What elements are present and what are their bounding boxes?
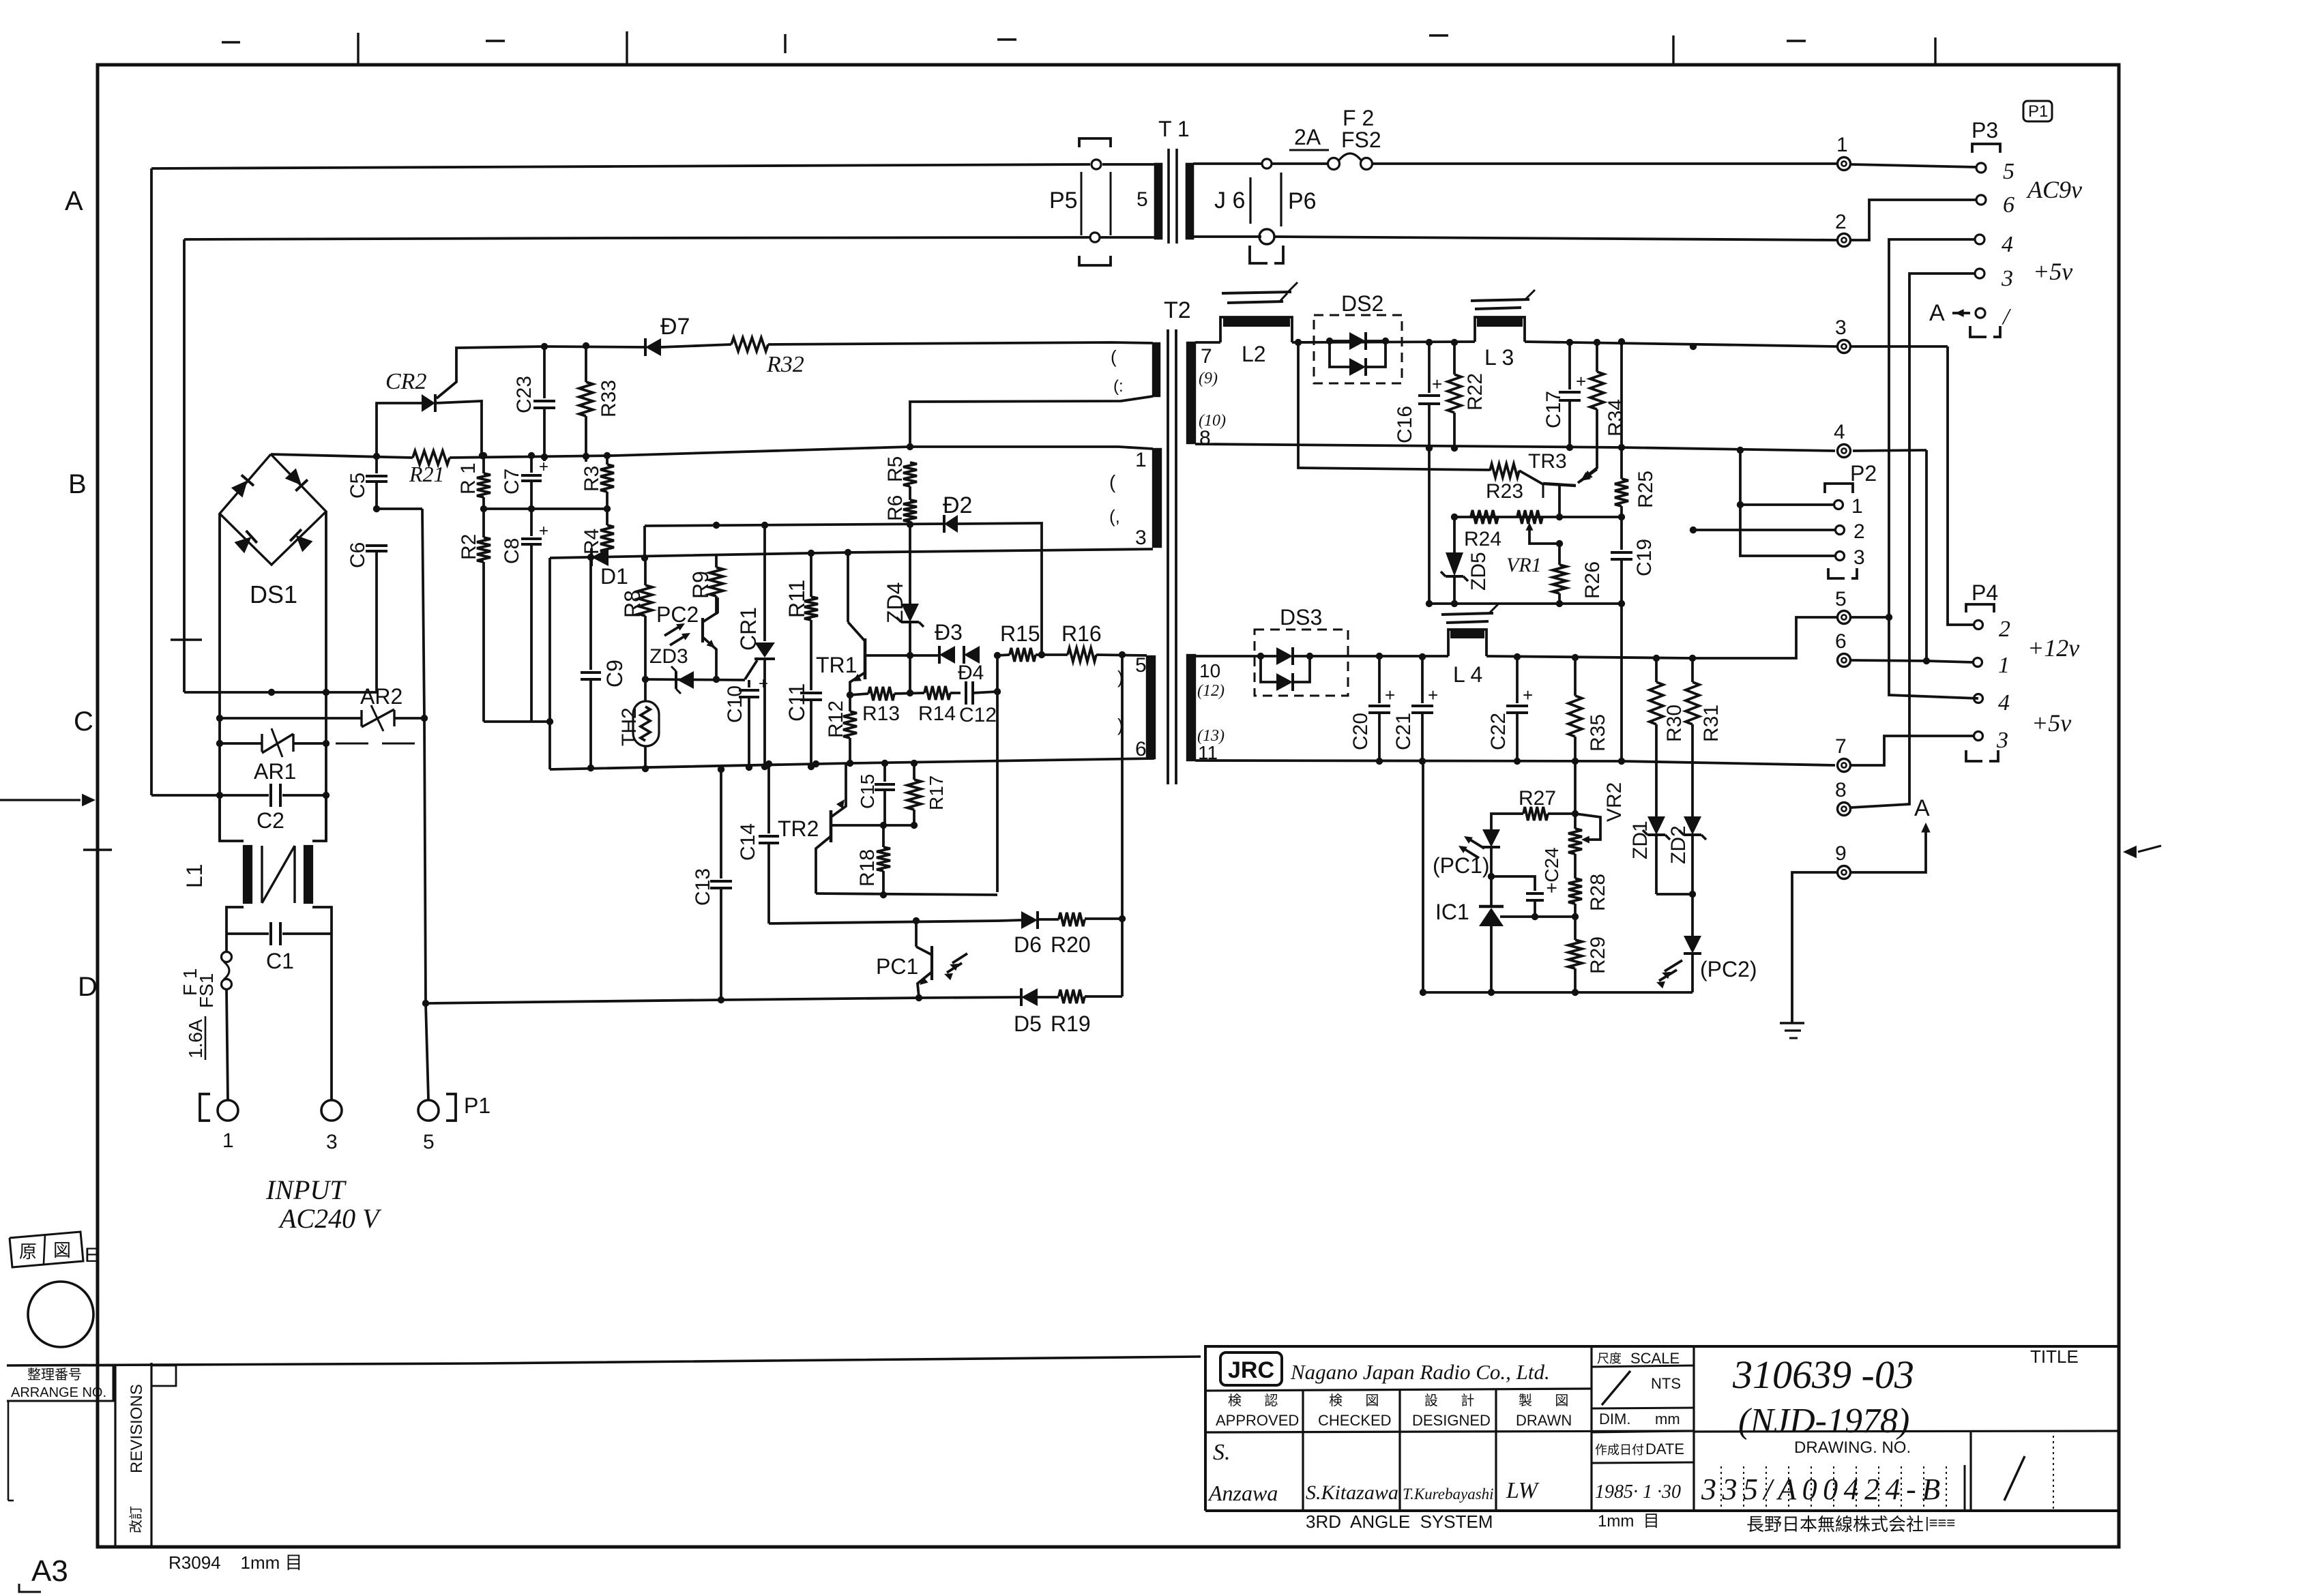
wire R23 feed from wire3	[1298, 342, 1490, 470]
rectifier DS3 dashed box	[1255, 630, 1348, 696]
resistor R28	[1568, 854, 1609, 917]
connector P1 label	[464, 1093, 490, 1118]
junction AR1 left	[216, 740, 223, 747]
svg-text:R35: R35	[1587, 714, 1609, 752]
connector P5 upper contact	[1091, 160, 1101, 169]
svg-text:3: 3	[2001, 266, 2013, 291]
svg-text:DS1: DS1	[250, 580, 297, 608]
capacitor C24 branch	[1491, 847, 1562, 917]
wire D2 to R15/R16 row	[958, 523, 1042, 653]
connector P2 bottom bracket	[1828, 568, 1857, 578]
capacitor C16	[1394, 342, 1442, 447]
snubber wire D7/R32 row	[456, 342, 1153, 368]
winding pin 3 label	[1135, 527, 1147, 549]
zener diode ZD2	[1667, 816, 1706, 894]
svg-text:APPROVED: APPROVED	[1216, 1412, 1299, 1429]
row TR2 base/R18	[832, 822, 918, 829]
connector P6 label	[1288, 188, 1317, 214]
svg-text:R6: R6	[884, 495, 907, 521]
svg-text:1: 1	[1836, 134, 1848, 156]
title block col lines	[1303, 1346, 1592, 1511]
svg-text:図: 図	[53, 1240, 71, 1260]
svg-text:(NJD-1978): (NJD-1978)	[1738, 1402, 1909, 1440]
wire P3.3 vertical to terminal8	[1851, 274, 1976, 808]
svg-text:310639 -03: 310639 -03	[1732, 1353, 1914, 1397]
junction row885 left	[1426, 600, 1433, 607]
node A label	[1914, 795, 1930, 821]
svg-text:+: +	[1523, 685, 1533, 705]
junction wire7 left	[1420, 989, 1426, 996]
bottom right marks	[1925, 1514, 1955, 1531]
resistor R6	[884, 486, 917, 524]
capacitor C5 label	[347, 473, 369, 499]
arrester AR2	[362, 705, 394, 731]
feedthrough terminal 5	[1835, 588, 1851, 624]
svg-text:C2: C2	[257, 808, 284, 833]
svg-text:(PC2): (PC2)	[1700, 957, 1757, 981]
thyristor CR1 label	[736, 607, 761, 651]
winding pin 5 label (T2)	[1117, 654, 1147, 688]
svg-text:(: (	[1109, 471, 1116, 492]
T2 secondary winding bottom (pins 10-11)	[1187, 655, 1195, 760]
rectifier DS2 label	[1341, 291, 1383, 316]
bottom strip 1mm note	[1598, 1512, 1660, 1531]
wire6-to-wire7 left leg	[1422, 761, 1424, 992]
svg-text:C7: C7	[501, 469, 523, 494]
potentiometer VR1	[1506, 510, 1558, 576]
svg-text:+: +	[1432, 374, 1442, 394]
zener diode ZD1	[1629, 816, 1670, 894]
junction AR1 right	[323, 740, 329, 747]
junction row1210 R18	[880, 822, 887, 829]
junction bus C7	[528, 452, 535, 459]
svg-text:1985· 1 ·30: 1985· 1 ·30	[1595, 1481, 1681, 1503]
junction wire4 C17	[1566, 444, 1573, 451]
capacitor C12	[959, 681, 997, 726]
svg-text:改訂: 改訂	[128, 1506, 144, 1533]
wire P2 pin2 feed	[1693, 529, 1835, 531]
svg-text:TR3: TR3	[1528, 450, 1567, 473]
junction wire4 R22	[1451, 445, 1458, 452]
connector P2 label	[1850, 461, 1877, 486]
connector P4 pin 2	[1974, 617, 2011, 642]
svg-text:1: 1	[1998, 653, 2010, 678]
svg-text:R3094 1mm 目: R3094 1mm 目	[168, 1552, 303, 1573]
resistor R8	[620, 558, 652, 679]
rectifier DS2 diodes	[1326, 332, 1389, 376]
svg-text:LW: LW	[1506, 1478, 1540, 1503]
inductor L2 core	[1222, 282, 1298, 303]
svg-text:A: A	[1929, 300, 1945, 326]
shunt regulator IC1	[1479, 876, 1504, 992]
row D1 (T2 pin3 rail)	[550, 549, 1153, 558]
wire P2 pin1 feed	[1740, 503, 1834, 506]
junction wire6 R35	[1572, 758, 1579, 765]
left margin row label B	[68, 469, 87, 499]
svg-text:C23: C23	[513, 376, 536, 413]
wire P3.4 vertical to P4.4	[1889, 239, 1978, 698]
wire N input to T1 (AC line 2)	[184, 237, 1089, 239]
svg-text:P4: P4	[1972, 580, 1998, 605]
bridge rectifier DS1 label	[250, 580, 297, 608]
svg-text:原: 原	[19, 1241, 37, 1262]
svg-text:R23: R23	[1486, 480, 1523, 503]
capacitor C14	[737, 764, 779, 923]
svg-text:Đ7: Đ7	[660, 314, 690, 340]
fuse F1/FS1	[222, 934, 232, 1099]
svg-text:R14: R14	[918, 703, 956, 725]
connector P3 pin 3	[1975, 266, 2013, 291]
resistor R35	[1568, 657, 1609, 761]
svg-text:3: 3	[1835, 316, 1847, 339]
junction row885 ZD5	[1451, 600, 1458, 607]
junction R13R14	[907, 690, 913, 696]
svg-text:P3: P3	[1972, 118, 1998, 143]
svg-text:AC240 V: AC240 V	[278, 1203, 382, 1234]
junction P2 pin2	[1690, 527, 1697, 533]
svg-text:FS1: FS1	[196, 973, 217, 1008]
svg-text:3: 3	[1996, 728, 2008, 753]
svg-text:DRAWING. NO.: DRAWING. NO.	[1794, 1438, 1911, 1457]
svg-text:2: 2	[1853, 520, 1865, 543]
svg-text:VR2: VR2	[1603, 782, 1626, 822]
connector P4 label	[1972, 580, 1998, 605]
connector P3 pin 5	[1976, 159, 2014, 184]
scale box	[1592, 1346, 1694, 1511]
diode D1	[591, 548, 609, 566]
svg-text:尺度: 尺度	[1597, 1352, 1622, 1365]
junction row771 CR1	[761, 522, 768, 529]
bottom-left corner tick	[19, 1584, 41, 1592]
resistor R13	[862, 687, 900, 725]
svg-text:R30: R30	[1663, 705, 1686, 742]
capacitor C22	[1487, 657, 1533, 761]
connector P4 pin 4	[1974, 690, 2010, 715]
svg-text:7: 7	[1201, 345, 1212, 368]
capacitor C23	[513, 346, 555, 461]
diode D7	[645, 338, 661, 356]
input label INPUT	[265, 1174, 347, 1205]
earth rail x619	[422, 509, 428, 1099]
T2 secondary winding top (pins 7-8)	[1187, 342, 1195, 443]
potentiometer VR2	[1568, 782, 1626, 854]
svg-text:R9: R9	[688, 571, 713, 599]
junction wire4 R25col	[1618, 444, 1625, 451]
winding pin 10 label	[1199, 660, 1220, 681]
resistor R21 on bus	[409, 451, 450, 486]
zener ZD4	[883, 524, 924, 655]
resistor R14	[918, 686, 956, 725]
svg-text:ZD3: ZD3	[649, 645, 688, 668]
junction bus CR2 right	[479, 452, 486, 459]
resistor R18	[856, 825, 890, 896]
connector P5 label	[1049, 188, 1078, 213]
svg-text:+12v: +12v	[2027, 634, 2079, 662]
winding pin 5 label	[1137, 188, 1148, 211]
junction wire3 R25	[1618, 338, 1625, 345]
connector J6/P6 bars	[1250, 173, 1281, 226]
resistor R15	[997, 621, 1068, 662]
sheet ref box P1	[2023, 101, 2052, 121]
arrester AR1	[262, 728, 293, 757]
resistor R1	[457, 456, 490, 509]
svg-text:作成日付: 作成日付	[1595, 1443, 1644, 1457]
rail x806 (left control leg)	[548, 558, 551, 769]
connector P1 pin 1	[218, 1100, 238, 1152]
junction railM R12	[847, 760, 918, 767]
capacitor C5/C6 column	[326, 456, 422, 692]
approved signature	[1207, 1440, 1278, 1505]
capacitor C10	[724, 675, 768, 767]
transformer T1 label	[1158, 117, 1190, 141]
optocoupler PC2 light arrows	[664, 623, 690, 645]
title block JRC row divider	[1205, 1389, 1592, 1391]
capacitor C6 label	[347, 542, 369, 568]
svg-text:C16: C16	[1394, 406, 1416, 443]
wire ZD1-ZD2 bottoms	[1656, 891, 1696, 898]
net label +5v (P4)	[2032, 709, 2071, 737]
junction wire3 C17	[1566, 339, 1573, 346]
svg-text:R22: R22	[1464, 373, 1486, 411]
connector P1 bracket	[200, 1094, 456, 1121]
row ZD3	[645, 679, 745, 680]
svg-text:C17: C17	[1542, 391, 1565, 428]
svg-text:製 図: 製 図	[1519, 1393, 1568, 1408]
diode D3	[939, 646, 955, 664]
T2 primary winding bottom (pins 5-6)	[1147, 656, 1155, 758]
LED (PC1)	[1459, 829, 1500, 876]
svg-text:+: +	[539, 522, 548, 540]
junction row758 TR3	[1556, 514, 1563, 520]
wire P4 pin1 / terminal6 feed from wire4	[1851, 450, 1973, 662]
svg-text:4: 4	[1834, 421, 1845, 443]
transformer T1 secondary winding	[1186, 164, 1261, 239]
svg-text:R31: R31	[1700, 705, 1723, 742]
wire P4 pin2 feed from wire3	[1948, 346, 1974, 625]
svg-text:R15: R15	[1000, 621, 1040, 646]
svg-text:+: +	[759, 675, 768, 693]
bridge rectifier DS1	[220, 454, 326, 565]
title number	[1732, 1353, 1914, 1397]
wire terminal5 to +5v vertical	[1851, 616, 1889, 619]
optocoupler PC1 label	[876, 954, 918, 979]
svg-text:NTS: NTS	[1651, 1375, 1681, 1392]
drawn signature	[1506, 1478, 1540, 1503]
designed signature	[1403, 1486, 1494, 1503]
svg-text:INPUT: INPUT	[265, 1174, 347, 1205]
svg-text:AR2: AR2	[360, 684, 402, 709]
svg-text:P1: P1	[2028, 102, 2048, 121]
feedthrough terminal 7	[1835, 735, 1851, 772]
row D6/R20	[769, 919, 1122, 923]
svg-text:R29: R29	[1587, 936, 1609, 974]
junction AR2 right	[421, 715, 428, 722]
junction railM C9	[587, 765, 594, 771]
T2 primary winding mid (pins 1-3)	[1153, 449, 1161, 547]
svg-text:Đ2: Đ2	[943, 492, 972, 518]
svg-text:L1: L1	[182, 863, 207, 888]
bridge right rail	[325, 512, 327, 841]
resistor R9	[688, 555, 723, 615]
svg-text:R34: R34	[1604, 399, 1627, 437]
connector J6 label	[1214, 188, 1245, 213]
svg-text:R 1: R 1	[457, 462, 480, 494]
junction terminal6 row	[1923, 657, 1930, 664]
junction C2 right	[323, 792, 329, 799]
svg-text:TITLE: TITLE	[2030, 1346, 2079, 1367]
capacitor C20	[1349, 656, 1395, 761]
zener ZD3 (horizontal)	[671, 666, 694, 694]
thyristor CR2	[377, 368, 482, 456]
junction wire5 R31	[1689, 655, 1696, 662]
svg-text:1: 1	[1135, 449, 1147, 471]
transformer T2 core	[1168, 329, 1176, 784]
junction bus C23	[541, 454, 548, 460]
junction row818 TR1	[845, 549, 851, 556]
junction wire3 R34	[1594, 339, 1600, 346]
svg-text:Nagano Japan Radio Co., Ltd.: Nagano Japan Radio Co., Ltd.	[1290, 1360, 1550, 1384]
connector P4 bracket	[1966, 604, 1994, 612]
svg-text:PC2: PC2	[656, 602, 699, 627]
feedthrough terminal 6	[1835, 630, 1851, 667]
svg-text:2: 2	[1835, 211, 1847, 233]
junction earth bottom rail	[422, 1000, 429, 1007]
capacitor C8	[501, 509, 548, 722]
junction row771 R6	[907, 521, 913, 528]
junction bus R5 column	[907, 443, 913, 450]
svg-text:VR1: VR1	[1506, 554, 1542, 576]
drawn header	[1516, 1393, 1572, 1429]
thyristor CR1	[745, 525, 775, 767]
drawing no dotted separators	[1721, 1465, 1965, 1509]
svg-text:(:: (:	[1113, 377, 1124, 396]
TITLE label	[2030, 1346, 2079, 1367]
junction wire6 C22	[1514, 758, 1521, 765]
net label +12v	[2027, 634, 2079, 662]
svg-text:R16: R16	[1061, 621, 1102, 646]
svg-text:長野日本無線株式会社: 長野日本無線株式会社	[1746, 1514, 1924, 1535]
wire4 pin8 rail	[1195, 444, 1926, 451]
inductor L2 label	[1242, 342, 1266, 366]
wire C16 column to row885	[1428, 448, 1431, 604]
wire C1 right to P1 pin3	[330, 934, 333, 1099]
left border tick	[83, 848, 112, 851]
junction row885 C19	[1618, 600, 1625, 607]
svg-text:DIM.: DIM.	[1599, 1410, 1630, 1428]
title block header divider	[1205, 1431, 1694, 1432]
left centerline arrow	[0, 794, 96, 807]
svg-text:R32: R32	[766, 352, 804, 377]
svg-text:R21: R21	[409, 462, 445, 486]
row R1/C7 junction	[484, 507, 607, 510]
wire1 left rail	[150, 168, 153, 795]
junction bottom rail C13	[718, 996, 724, 1003]
net label AC9v	[2026, 176, 2082, 203]
left margin row label C	[74, 707, 93, 737]
svg-text:C6: C6	[347, 542, 369, 568]
junction bus CR2 left	[373, 453, 380, 460]
feedthrough terminal 1	[1836, 134, 1851, 171]
winding pin (10) label	[1199, 412, 1226, 430]
transistor TR3 label	[1528, 450, 1567, 473]
feedthrough terminal 3	[1835, 316, 1851, 353]
svg-text:SCALE: SCALE	[1630, 1350, 1680, 1367]
junction railM C13	[718, 766, 724, 773]
svg-text:T 1: T 1	[1158, 117, 1190, 141]
junction wire5 C22	[1514, 653, 1521, 660]
svg-text:P5: P5	[1049, 188, 1078, 213]
svg-text:DS3: DS3	[1280, 605, 1322, 630]
capacitor C9	[581, 557, 627, 768]
capacitor C2	[257, 784, 284, 833]
winding pin 8 label	[1199, 427, 1211, 449]
svg-text:C1: C1	[266, 949, 294, 973]
transistor TR2	[816, 763, 846, 893]
junction VR1 wiper	[1556, 540, 1563, 547]
junction railM TR2col	[812, 760, 819, 767]
junction row957 x1645	[1119, 651, 1126, 658]
junction wire5 R30	[1653, 655, 1660, 662]
svg-text:TR1: TR1	[816, 653, 857, 677]
junction bus R3	[604, 452, 611, 459]
arrester AR1 row	[220, 742, 326, 745]
T2 primary winding pins marks	[1111, 346, 1124, 396]
svg-text:+: +	[1428, 685, 1438, 705]
junction ZD4 bottom	[907, 652, 913, 659]
svg-text:ZD1: ZD1	[1629, 821, 1652, 859]
svg-text:D5: D5	[1014, 1011, 1042, 1036]
vertical x2309 R28 chain	[1574, 761, 1577, 829]
svg-text:F 2: F 2	[1343, 106, 1374, 130]
wire D3D4 node down to row1313	[994, 652, 1001, 892]
winding pin (12) label	[1197, 682, 1225, 700]
junction wire6 C21	[1419, 758, 1426, 765]
feedthrough terminal 4	[1834, 421, 1851, 458]
svg-text:(,: (,	[1109, 506, 1120, 527]
connector P4 bottom bracket	[1966, 750, 1998, 761]
feedthrough terminal 9	[1835, 842, 1851, 879]
svg-text:Đ3: Đ3	[935, 620, 963, 645]
bottom rail D5 row	[426, 996, 1122, 1003]
diode D4	[964, 646, 980, 664]
transformer T1 core	[1169, 149, 1177, 243]
junction row818 C9	[587, 554, 594, 561]
svg-text:検 図: 検 図	[1329, 1393, 1379, 1408]
zener ZD3 label	[649, 645, 688, 668]
junction bottom rail PC1	[915, 994, 922, 1001]
bottom-left faint text	[168, 1552, 303, 1573]
svg-text:R26: R26	[1581, 561, 1604, 599]
optocoupler PC1 transistor	[916, 946, 932, 997]
svg-text:E: E	[85, 1244, 98, 1267]
wire L input to T1 (AC line 1)	[151, 164, 1090, 168]
wire row771 left drop	[641, 526, 648, 561]
transistor TR2 label	[778, 816, 819, 841]
svg-text:D1: D1	[600, 564, 628, 589]
svg-text:JRC: JRC	[1228, 1357, 1274, 1383]
capacitor C13	[692, 769, 732, 1000]
row R13/R14	[850, 693, 961, 695]
junction wire3 C16	[1426, 339, 1433, 346]
transformer T1 primary winding	[1100, 164, 1162, 239]
diode D4 label	[958, 662, 984, 684]
junction railM CR1	[761, 763, 768, 770]
svg-text:ZD4: ZD4	[883, 582, 907, 623]
left margin fold dash	[171, 638, 202, 640]
svg-text:S.: S.	[1213, 1440, 1231, 1465]
junction railM C11	[808, 763, 815, 770]
row D2 (feedback)	[645, 524, 944, 526]
